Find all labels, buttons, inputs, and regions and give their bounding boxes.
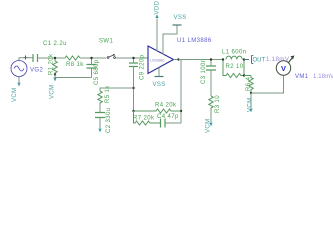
down arrow below C2 — [98, 129, 101, 133]
resistor R8 — [65, 56, 84, 68]
svg-text:VG2: VG2 — [30, 68, 43, 74]
capacitor C5 — [87, 58, 101, 85]
svg-text:R7 20k: R7 20k — [133, 116, 155, 122]
wire SW1 to C9 node and op-amp — [116, 57, 148, 59]
resistor R7 — [133, 111, 160, 125]
junction node C9 top — [132, 57, 134, 59]
svg-text:R3 10: R3 10 — [215, 95, 221, 113]
svg-text:C2 330u: C2 330u — [106, 108, 112, 134]
svg-text:R6 4: R6 4 — [246, 76, 252, 91]
svg-text:VDD: VDD — [155, 0, 161, 14]
output gate symbol — [244, 56, 253, 64]
svg-text:1.18mV: 1.18mV — [313, 74, 333, 80]
op-amp U1 — [148, 38, 212, 74]
junction node C5 top — [90, 57, 92, 59]
svg-text:VSS: VSS — [153, 82, 166, 88]
svg-text:VCM: VCM — [248, 97, 254, 112]
wire C2 to arrow — [99, 118, 101, 129]
svg-text:VCM: VCM — [50, 84, 56, 99]
svg-text:C3 100n: C3 100n — [201, 59, 207, 85]
svg-text:VSS: VSS — [174, 15, 187, 21]
capacitor C4 — [157, 114, 181, 128]
wire C5 bottom to R1 bottom (VCM net) — [55, 75, 92, 78]
svg-text:VCM: VCM — [12, 87, 18, 102]
VCM jumper below R3 — [206, 109, 213, 133]
svg-text:U1 LM3886: U1 LM3886 — [177, 38, 212, 44]
junction node R2 bottom — [243, 74, 245, 76]
svg-text:R4 20k: R4 20k — [155, 103, 177, 109]
wire branch to R5 — [100, 88, 134, 91]
wire VG2 top to C1 — [19, 58, 33, 61]
voltmeter VM1 — [276, 56, 294, 76]
svg-text:V: V — [281, 64, 286, 73]
wire C1 to R8 — [38, 57, 66, 59]
junction node R1 bottom — [54, 73, 56, 75]
wire feedback riser — [179, 60, 182, 124]
voltage source VG2 — [11, 61, 27, 77]
VSS rail jumper (top, to mute pin) — [163, 15, 187, 55]
wire R5 to C2 — [99, 104, 101, 112]
wire R8 to SW1 — [80, 57, 106, 59]
svg-text:VM1: VM1 — [295, 74, 309, 80]
VCM jumper below R1 — [50, 75, 57, 100]
junction node R1 top — [54, 57, 56, 59]
svg-text:OUT: OUT — [253, 58, 266, 64]
svg-text:L1 600n: L1 600n — [222, 50, 247, 56]
VSS power jumper (bottom) — [153, 68, 166, 89]
capacitor C9 — [129, 54, 146, 111]
svg-text:LM3886: LM3886 — [150, 58, 165, 63]
svg-text:R1 20k: R1 20k — [49, 53, 55, 75]
inductor L1 — [222, 50, 247, 60]
wire op-amp output — [174, 59, 224, 61]
capacitor C1 — [33, 54, 38, 62]
switch SW1 — [99, 39, 115, 59]
junction node R6 bottom — [250, 92, 252, 94]
resistor R3 (Zobel) — [209, 95, 221, 113]
svg-text:R8 1k: R8 1k — [66, 62, 84, 68]
resistor R4 — [134, 103, 182, 114]
VCM jumper below R6 — [248, 93, 254, 113]
VG2 plus polarity mark — [24, 56, 28, 60]
svg-text:VCM: VCM — [206, 118, 212, 133]
junction node OUT — [243, 58, 245, 60]
resistor R5 — [98, 85, 111, 104]
resistor R1 — [49, 53, 58, 75]
svg-text:SW1: SW1 — [99, 39, 113, 45]
VDD power jumper — [155, 0, 161, 51]
junction node feedback top — [180, 110, 182, 112]
svg-text:R5 1k: R5 1k — [105, 85, 111, 103]
svg-text:C5 680p: C5 680p — [94, 59, 100, 85]
capacitor C3 (Zobel) — [201, 59, 216, 97]
svg-text:R2 10: R2 10 — [226, 64, 244, 70]
svg-text:C1 2.2u: C1 2.2u — [43, 41, 67, 47]
svg-text:C9 220p: C9 220p — [140, 54, 146, 80]
junction node L1 left — [222, 58, 224, 60]
VCM jumper below VG2 — [12, 77, 21, 103]
svg-text:C4 47p: C4 47p — [157, 114, 179, 120]
capacitor C2 — [95, 108, 112, 134]
resistor R2 (parallel) — [223, 60, 244, 78]
junction node output — [177, 58, 179, 60]
junction node feedback left — [132, 110, 134, 112]
junction node C9/R5 branch — [132, 87, 134, 89]
junction node C3 top — [210, 58, 212, 60]
wire R6 to voltmeter — [251, 76, 284, 94]
resistor R6 — [244, 76, 253, 94]
